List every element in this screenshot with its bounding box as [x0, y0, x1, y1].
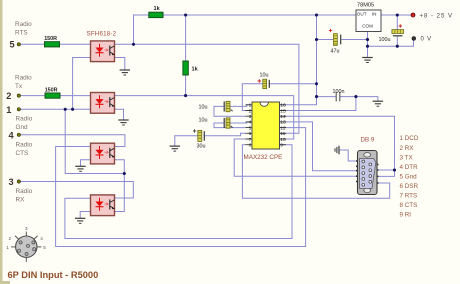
- terminal 5 radio RTS: [10, 21, 33, 50]
- wire regulator COM: [367, 32, 369, 58]
- opto-coupler OK1 SFH618-2: [87, 30, 117, 61]
- svg-text:DB 9: DB 9: [361, 137, 375, 144]
- wire OK1 cathode return: [73, 58, 91, 110]
- wire U1 pin12 to OK3 anode: [56, 128, 306, 247]
- svg-text:5: 5: [43, 245, 46, 250]
- wire OK1 pullup branch: [134, 15, 149, 44]
- wire OK1 emitter: [115, 58, 125, 70]
- svg-text:12: 12: [280, 125, 286, 131]
- node COM 0V: [366, 45, 369, 48]
- svg-text:Radio: Radio: [15, 21, 32, 28]
- wire C4 10u right lead to U1 pin1: [230, 105, 252, 107]
- label DB9 pin list: [400, 135, 419, 218]
- svg-text:9: 9: [280, 143, 283, 149]
- svg-text:OUT: OUT: [357, 12, 367, 17]
- svg-text:4: 4: [249, 120, 252, 126]
- svg-text:3: 3: [25, 226, 28, 231]
- svg-text:150R: 150R: [45, 87, 58, 93]
- svg-text:1k: 1k: [154, 6, 161, 12]
- wire 100n left lead: [317, 96, 337, 98]
- svg-text:10u: 10u: [199, 104, 208, 110]
- svg-text:9 RI: 9 RI: [400, 212, 412, 219]
- svg-text:3: 3: [9, 177, 14, 187]
- resistor R2 1k: [183, 61, 199, 75]
- wire OK3 emitter: [114, 160, 125, 212]
- svg-text:IN: IN: [372, 12, 377, 17]
- connector CON1 DB9: [356, 137, 379, 195]
- svg-text:10: 10: [280, 137, 286, 143]
- capacitor C6 100n: [333, 89, 345, 101]
- ground OK1: [120, 70, 130, 75]
- svg-text:1: 1: [249, 103, 252, 109]
- node rail 100u: [396, 13, 399, 16]
- wire U1 pin8 to DB9: [242, 145, 389, 199]
- node 100n gnd: [354, 95, 357, 98]
- node 10u vcc: [315, 82, 318, 85]
- node DB9 split: [393, 168, 396, 171]
- wire C1 100u bottom lead: [396, 36, 398, 46]
- svg-text:6 DSR: 6 DSR: [400, 183, 419, 190]
- ground OK2: [118, 120, 128, 125]
- svg-text:100n: 100n: [333, 89, 345, 95]
- wire 100n right lead: [340, 97, 378, 101]
- svg-text:1 DCD: 1 DCD: [400, 135, 419, 142]
- wire C4 10u left lead to U1 pin3: [214, 106, 246, 116]
- svg-text:Radio: Radio: [16, 116, 33, 123]
- node radio gnd A: [64, 108, 67, 111]
- capacitor C4 10u: [199, 101, 233, 111]
- resistor R3 150R: [44, 36, 59, 47]
- wire R2 bottom lead: [185, 75, 187, 96]
- svg-text:6: 6: [249, 131, 252, 137]
- ground OK3: [75, 166, 85, 171]
- opto-coupler OK3: [91, 143, 115, 164]
- svg-text:14: 14: [280, 114, 286, 120]
- node opto1 collector junction: [132, 43, 135, 46]
- node rail R2: [184, 13, 187, 16]
- svg-text:13: 13: [280, 120, 286, 126]
- resistor R1 1k: [149, 6, 163, 18]
- wire regulator input: [381, 14, 412, 16]
- svg-text:5: 5: [10, 39, 15, 49]
- svg-text:30u: 30u: [197, 144, 206, 150]
- svg-text:15: 15: [280, 108, 286, 114]
- svg-text:3 TX: 3 TX: [400, 154, 414, 161]
- wire terminal4 to OK3 collector: [20, 135, 125, 147]
- terminal 1 radio Gnd: [6, 105, 32, 131]
- wire C2 47u left lead: [317, 39, 334, 41]
- svg-text:SFH618-2: SFH618-2: [87, 30, 117, 37]
- svg-text:100u: 100u: [379, 37, 391, 43]
- wire terminal5 to R3: [20, 43, 45, 45]
- wire C7 30u left lead: [175, 136, 198, 146]
- wire U1 pin16 VCC: [280, 97, 317, 105]
- wire C3 10u right lead: [269, 83, 316, 85]
- ground DB9 sideways: [335, 146, 339, 155]
- capacitor C5 10u: [199, 117, 233, 128]
- svg-text:Radio: Radio: [15, 74, 32, 81]
- node emitter common: [123, 172, 126, 175]
- wire vcc vertical: [316, 15, 318, 97]
- node 47u: [315, 38, 318, 41]
- opto-coupler OK2: [91, 93, 115, 114]
- node rail vcc: [315, 13, 318, 16]
- wire radio gnd row: [20, 108, 91, 110]
- svg-text:150R: 150R: [44, 36, 57, 42]
- wire gnd branch to emitter node: [65, 109, 124, 173]
- terminal +8-25V: [411, 13, 453, 19]
- svg-text:2: 2: [9, 236, 12, 241]
- wire U1 pin14 to DB9: [280, 116, 395, 176]
- wire DB9 ground stub: [339, 150, 358, 161]
- wire OK3 cathode: [81, 160, 91, 166]
- svg-text:Gnd: Gnd: [16, 124, 29, 131]
- wire C2 47u right lead: [342, 39, 368, 41]
- IC U1 MAX232 CPE: [244, 102, 287, 161]
- terminal 2 radio Tx: [6, 74, 32, 101]
- wire U1 pin15 gnd: [280, 97, 356, 111]
- wire C5 10u left lead to U1 pin5: [214, 123, 246, 128]
- wire R3 to OK1 anode: [60, 43, 91, 45]
- wire OK1 collector run to U1 pin11: [115, 44, 299, 133]
- wire R2 top lead: [185, 15, 187, 61]
- wire terminal3 to OK4 collector: [20, 182, 133, 199]
- wire OK2 emitter: [114, 109, 124, 120]
- node R2 opto2: [184, 94, 187, 97]
- regulator VR1 78M05: [356, 3, 381, 32]
- wire U1 pin9 to OK4 anode: [65, 145, 292, 239]
- svg-text:11: 11: [280, 131, 285, 137]
- terminal 3 radio RX: [9, 177, 33, 203]
- svg-text:0 V: 0 V: [421, 37, 432, 43]
- svg-text:8: 8: [249, 143, 252, 149]
- border frame: [0, 0, 10, 284]
- svg-text:2: 2: [6, 91, 11, 101]
- svg-text:5: 5: [249, 125, 252, 131]
- capacitor C3 10u: [258, 72, 270, 88]
- wire C3 10u left lead to U1 pin2: [242, 84, 262, 111]
- wire U1 pin13 to DB9: [280, 122, 358, 171]
- svg-text:5 Gnd: 5 Gnd: [400, 173, 418, 180]
- resistor R4 150R: [45, 87, 60, 98]
- wire R4 to OK2 anode: [60, 95, 91, 97]
- wire OK4 cathode: [80, 212, 90, 219]
- node vcc pin16: [315, 95, 318, 98]
- wire U1 pin7 to DB9: [234, 139, 357, 176]
- wire +5V rail: [163, 14, 356, 16]
- connector CON2 6P DIN: [6, 226, 46, 262]
- svg-text:6P DIN Input - R5000: 6P DIN Input - R5000: [8, 270, 99, 280]
- node COM 47u: [366, 38, 369, 41]
- svg-text:1k: 1k: [192, 67, 199, 73]
- wire OK2 collector run to U1 pin10: [115, 96, 294, 139]
- svg-text:1: 1: [6, 245, 9, 250]
- wire C5 10u right lead to U1 pin4: [230, 122, 252, 123]
- node radio gnd B: [71, 108, 74, 111]
- svg-text:RTS: RTS: [15, 29, 28, 36]
- wire C7 30u right lead to U1 pin6: [204, 133, 245, 136]
- ground regulator COM: [362, 58, 372, 63]
- svg-text:16: 16: [280, 103, 286, 109]
- svg-text:COM: COM: [362, 24, 373, 29]
- terminal 0V: [412, 37, 432, 43]
- svg-text:7 RTS: 7 RTS: [400, 193, 418, 200]
- svg-text:Tx: Tx: [15, 83, 23, 90]
- svg-text:10u: 10u: [199, 117, 208, 123]
- svg-text:Radio: Radio: [16, 142, 33, 149]
- svg-text:4 DTR: 4 DTR: [400, 164, 419, 171]
- capacitor C2 47u: [329, 29, 341, 55]
- svg-text:47u: 47u: [331, 49, 340, 55]
- svg-text:2 RX: 2 RX: [400, 145, 415, 152]
- terminal 4 radio CTS: [9, 130, 33, 157]
- svg-text:7: 7: [249, 137, 252, 143]
- svg-text:RX: RX: [16, 196, 26, 203]
- ground 100n: [373, 101, 383, 106]
- svg-text:1: 1: [6, 105, 11, 115]
- svg-text:2: 2: [249, 108, 252, 114]
- svg-text:4: 4: [40, 236, 43, 241]
- capacitor C1 100u: [379, 24, 404, 43]
- svg-text:8 CTS: 8 CTS: [400, 202, 418, 209]
- svg-text:Radio: Radio: [16, 188, 33, 195]
- wire terminal2 to R4: [20, 95, 45, 97]
- wire 0V return: [368, 40, 414, 46]
- svg-text:CTS: CTS: [16, 150, 29, 157]
- ground OK4: [75, 218, 85, 223]
- svg-text:3: 3: [249, 114, 252, 120]
- ground 30u: [170, 146, 180, 151]
- svg-text:+8 - 25 V: +8 - 25 V: [420, 13, 454, 19]
- capacitor C7 30u: [193, 129, 206, 149]
- svg-text:MAX232 CPE: MAX232 CPE: [244, 154, 283, 161]
- opto-coupler OK4: [91, 195, 115, 216]
- svg-text:78M05: 78M05: [357, 3, 374, 9]
- svg-text:10u: 10u: [260, 72, 269, 78]
- wire DB9 pin branch: [377, 169, 395, 171]
- node 100u 0V: [396, 45, 399, 48]
- wire C1 100u top lead: [396, 15, 398, 30]
- svg-text:4: 4: [9, 130, 15, 140]
